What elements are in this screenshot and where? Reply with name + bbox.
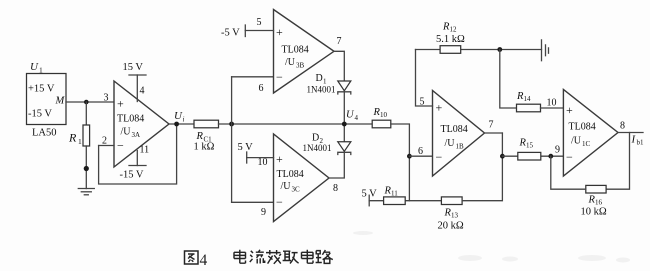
- wire: U3B pin 6: [232, 76, 274, 78]
- svg-text:1: 1: [78, 137, 82, 146]
- wire: U3A output: [169, 123, 194, 125]
- svg-text:9: 9: [555, 145, 560, 156]
- wire: main line RC1 to R10: [219, 123, 373, 125]
- resistor R16: [586, 185, 606, 193]
- svg-text:R: R: [196, 131, 204, 142]
- wire: R12 junction down to R14: [500, 50, 517, 109]
- node: R12 junction: [497, 47, 502, 52]
- svg-text:15: 15: [526, 142, 534, 150]
- node: feedback junction: [229, 122, 234, 127]
- caption char 取: [283, 251, 299, 263]
- svg-text:5 V: 5 V: [238, 142, 254, 153]
- caption char 获: [266, 250, 281, 264]
- resistor R1 (burden resistor, vertical): [83, 125, 90, 146]
- svg-text:11: 11: [391, 190, 398, 198]
- svg-text:/U: /U: [281, 181, 292, 192]
- op-amp U3A: [114, 81, 169, 167]
- caption char 电 (second): [302, 250, 314, 263]
- ground symbol (sideways): [542, 40, 549, 61]
- svg-text:4: 4: [200, 252, 208, 269]
- svg-text:5.1 kΩ: 5.1 kΩ: [436, 34, 465, 45]
- svg-text:1N4001: 1N4001: [307, 85, 336, 95]
- svg-text:1: 1: [39, 66, 43, 75]
- svg-text:/U: /U: [571, 136, 582, 147]
- svg-text:6: 6: [259, 83, 264, 94]
- wire: R10 to pin 6 rail: [391, 124, 410, 201]
- svg-text:7: 7: [489, 120, 494, 131]
- svg-text:/U: /U: [121, 127, 132, 138]
- op-amp U1C: [563, 90, 618, 177]
- wire: R12 top rail: [416, 49, 542, 51]
- wire: bottom rail with R11 and R13: [369, 200, 441, 202]
- wire: U3C output pin 8: [329, 124, 344, 178]
- wire: R1 to ground: [85, 146, 87, 189]
- svg-text:4: 4: [355, 114, 359, 122]
- svg-text:TL084: TL084: [282, 45, 309, 56]
- wire: pin 10 input with 5V terminal: [247, 157, 274, 159]
- op-amp U3C: [274, 134, 330, 222]
- svg-text:3: 3: [104, 93, 109, 104]
- svg-text:−: −: [276, 70, 283, 84]
- wire: pin 5 input with -5V terminal: [245, 30, 273, 32]
- op-amp U1B: [433, 91, 485, 177]
- resistor R11: [384, 197, 406, 205]
- caption char 路: [316, 250, 333, 263]
- svg-text:11: 11: [140, 145, 150, 156]
- diode D2: [338, 142, 351, 155]
- svg-text:1N4001: 1N4001: [303, 143, 332, 153]
- svg-text:1 kΩ: 1 kΩ: [194, 142, 215, 153]
- node: M junction: [84, 100, 89, 105]
- diode D1: [338, 81, 351, 94]
- current sensor U1 LA50 box: [27, 74, 67, 125]
- resistor R14: [517, 104, 541, 112]
- svg-text:10 kΩ: 10 kΩ: [581, 207, 607, 218]
- svg-text:−: −: [566, 150, 573, 164]
- wire: LA50 M output to U3A pin 3: [66, 101, 114, 103]
- svg-text:1B: 1B: [456, 143, 465, 151]
- node: output/R15 junction: [500, 154, 505, 159]
- svg-text:TL084: TL084: [441, 124, 468, 135]
- caption char 图: [185, 251, 199, 264]
- svg-text:3B: 3B: [296, 62, 305, 70]
- resistor R12: [440, 46, 461, 54]
- svg-text:+: +: [566, 103, 573, 117]
- svg-text:16: 16: [595, 199, 603, 207]
- node: U1B pin 6 junction: [407, 154, 412, 159]
- svg-text:−: −: [436, 150, 443, 164]
- wire: U1B pin 6: [409, 155, 432, 157]
- node U4: [342, 122, 347, 127]
- svg-text:7: 7: [337, 36, 342, 47]
- svg-text:6: 6: [418, 146, 423, 157]
- resistor R10: [372, 120, 391, 128]
- ground symbol: [78, 189, 94, 195]
- svg-text:D: D: [316, 73, 323, 84]
- wire: U3C pin 9: [232, 201, 274, 203]
- svg-text:8: 8: [333, 183, 338, 194]
- svg-text:20 kΩ: 20 kΩ: [438, 221, 464, 232]
- resistor RC1: [194, 120, 219, 128]
- svg-text:+15 V: +15 V: [28, 84, 55, 95]
- svg-text:10: 10: [258, 157, 268, 168]
- svg-text:i: i: [183, 116, 185, 124]
- svg-text:-5 V: -5 V: [221, 28, 240, 39]
- wire: R16 to pin 9 junction: [551, 156, 586, 189]
- caption char 电: [234, 250, 246, 263]
- wire: pin 2 input: [99, 145, 114, 147]
- resistor R13: [441, 197, 462, 205]
- svg-text:+: +: [117, 97, 124, 111]
- svg-text:+: +: [276, 152, 283, 166]
- op-amp U3B: [274, 10, 335, 94]
- svg-text:13: 13: [451, 212, 459, 220]
- wire: junction down to resistor R1: [85, 102, 87, 126]
- svg-text:TL084: TL084: [569, 122, 596, 133]
- svg-text:1C: 1C: [582, 140, 591, 148]
- svg-text:+: +: [436, 101, 443, 115]
- svg-text:10: 10: [380, 111, 388, 119]
- node: below R1: [84, 166, 89, 171]
- caption char 流: [250, 250, 265, 264]
- svg-text:−: −: [276, 195, 283, 209]
- wire: U3A feedback loop output to pin 2: [99, 124, 177, 184]
- svg-text:/U: /U: [445, 138, 456, 149]
- svg-text:14: 14: [524, 95, 532, 103]
- wire: vertical feedback rail to pin6/pin9: [231, 77, 233, 203]
- svg-text:/U: /U: [285, 57, 296, 68]
- svg-text:5 V: 5 V: [362, 189, 378, 200]
- svg-text:M: M: [55, 96, 66, 107]
- node: pin 9 feedback junction: [548, 154, 553, 159]
- svg-text:5: 5: [420, 97, 425, 108]
- svg-text:TL084: TL084: [277, 169, 304, 180]
- wire: R13 to output rail: [462, 133, 502, 201]
- pin 4 power stub +15V: [136, 75, 138, 102]
- wire: R16 feedback loop: [606, 133, 629, 190]
- svg-text:3A: 3A: [132, 131, 141, 139]
- svg-text:b1: b1: [637, 139, 645, 147]
- svg-text:LA50: LA50: [32, 128, 57, 139]
- node Ui: [174, 122, 179, 127]
- svg-text:-15 V: -15 V: [120, 170, 144, 181]
- svg-text:U: U: [30, 61, 39, 73]
- svg-text:12: 12: [450, 26, 458, 34]
- svg-text:-15 V: -15 V: [28, 109, 52, 120]
- svg-text:TL084: TL084: [117, 114, 144, 125]
- svg-text:2: 2: [102, 136, 107, 147]
- svg-text:D: D: [312, 133, 319, 144]
- wire: U3B output pin 7: [334, 51, 344, 124]
- svg-text:3C: 3C: [292, 186, 301, 194]
- svg-text:5: 5: [257, 17, 262, 28]
- svg-text:4: 4: [140, 86, 145, 97]
- svg-text:−: −: [117, 139, 124, 153]
- wire: R15 line pin7 junction to U1C pin 9: [502, 155, 563, 157]
- resistor R15: [518, 152, 541, 160]
- svg-text:R: R: [68, 131, 77, 145]
- wire: pin 5 input from R12: [416, 50, 433, 107]
- svg-text:9: 9: [261, 207, 266, 218]
- wire: U1B output pin 7: [485, 132, 503, 134]
- wire: U1C output pin 8: [618, 132, 643, 134]
- svg-text:15 V: 15 V: [123, 62, 144, 73]
- wire: R14 to U1C pin 10: [541, 107, 564, 109]
- svg-text:10: 10: [547, 98, 557, 109]
- pin 11 power stub -15V: [136, 151, 138, 166]
- faint scan artifacts: [353, 231, 630, 263]
- svg-text:+: +: [276, 25, 283, 39]
- svg-text:8: 8: [620, 121, 625, 132]
- 5V terminal bar (R11): [368, 195, 370, 206]
